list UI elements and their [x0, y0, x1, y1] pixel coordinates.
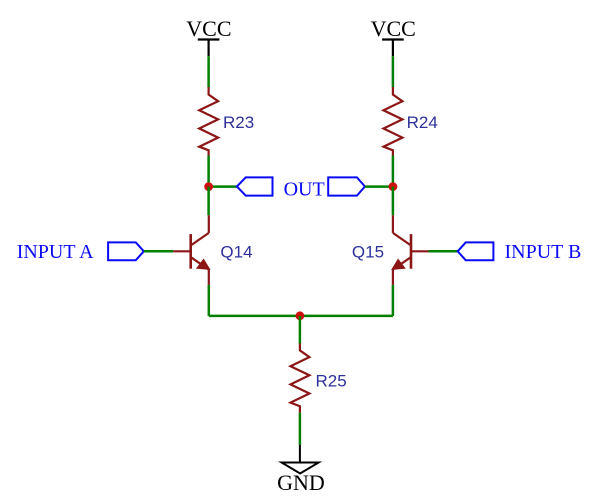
wire Q15 collector up [392, 187, 395, 216]
resistor R23 [199, 87, 218, 156]
junction node OUT-right [389, 182, 398, 191]
svg-text:Q15: Q15 [352, 243, 384, 262]
power VCC left symbol [198, 40, 220, 57]
svg-text:INPUT A: INPUT A [17, 241, 94, 263]
wire Q15 base to port INPUT B [429, 250, 458, 253]
wire tail node to R25 [299, 316, 302, 344]
resistor R24 [384, 87, 403, 156]
wire port INPUT A to Q14 base [144, 250, 173, 253]
svg-text:INPUT B: INPUT B [505, 241, 582, 263]
wire VCC right to R24 [392, 56, 395, 87]
wire R23 to node OUT-left [207, 156, 210, 187]
power VCC right symbol [382, 40, 404, 57]
wire emitters bus horizontal [209, 315, 393, 318]
wire R25 to GND [299, 413, 302, 445]
svg-text:R24: R24 [407, 113, 438, 132]
resistor R25 [291, 344, 310, 413]
port INPUT B (arrow pointing left) [458, 242, 494, 260]
svg-text:R25: R25 [316, 371, 347, 390]
svg-text:Q14: Q14 [220, 243, 252, 262]
ground GND symbol [282, 445, 319, 474]
junction node OUT-left [204, 182, 213, 191]
wire node OUT-left to Q14 collector [207, 187, 210, 216]
svg-text:OUT: OUT [284, 179, 325, 201]
svg-text:R23: R23 [223, 113, 254, 132]
wire node OUT-left to port [209, 185, 237, 188]
transistor Q14 (NPN) [173, 215, 209, 285]
wire port to node OUT-right [365, 185, 393, 188]
svg-text:VCC: VCC [186, 16, 231, 41]
wire VCC left to R23 [207, 56, 210, 87]
port OUT right (arrow pointing right) [328, 177, 365, 195]
svg-text:VCC: VCC [371, 16, 416, 41]
svg-text:GND: GND [277, 470, 325, 495]
port INPUT A (arrow pointing right) [108, 242, 144, 260]
transistor Q15 (NPN mirrored) [392, 215, 428, 285]
wire Q15 emitter down [392, 285, 395, 316]
junction node tail [296, 311, 305, 320]
port OUT left (arrow pointing left) [237, 177, 273, 195]
wire R24 to node OUT-right [392, 156, 395, 187]
wire Q14 emitter down [208, 285, 211, 316]
